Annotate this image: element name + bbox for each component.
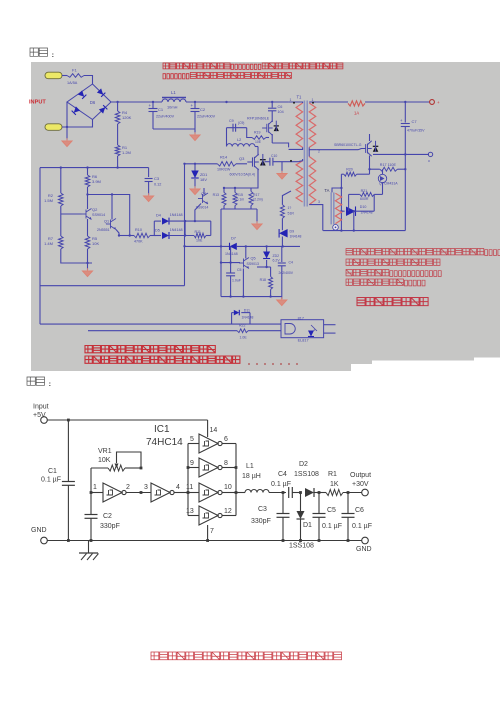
svg-text:Input: Input <box>33 404 49 411</box>
capacitor C6 104 <box>268 102 284 122</box>
svg-text:10: 10 <box>224 484 232 491</box>
svg-text:1A/5A: 1A/5A <box>67 81 78 85</box>
svg-text:470K: 470K <box>134 240 143 244</box>
wire <box>154 221 186 237</box>
fuse F1 1A <box>67 68 84 86</box>
annotation: features line 4 <box>346 279 425 286</box>
svg-text:817: 817 <box>298 317 304 321</box>
wire <box>86 193 129 235</box>
svg-text:18 µH: 18 µH <box>242 473 261 480</box>
potentiometer VR1 10K <box>91 448 142 493</box>
svg-text:14: 14 <box>210 427 218 434</box>
svg-text:C9: C9 <box>229 119 234 123</box>
capacitor C1 22uF/400V <box>149 102 175 129</box>
svg-text:C3: C3 <box>154 176 160 181</box>
svg-text:470uF/35V: 470uF/35V <box>407 129 425 133</box>
annotation: features line 1 <box>346 249 500 256</box>
resistor R19 10E <box>247 128 269 144</box>
wire <box>66 102 68 140</box>
svg-text:C2: C2 <box>103 513 112 520</box>
wire <box>257 147 259 156</box>
resistor R2 1.5M <box>44 168 63 206</box>
svg-text:10E: 10E <box>255 140 262 144</box>
resistor R4 120K <box>115 102 131 124</box>
capacitor C3 0.12uF <box>145 168 162 195</box>
svg-text:1N4148: 1N4148 <box>290 235 302 239</box>
svg-text:Q2: Q2 <box>92 207 98 212</box>
svg-text:C5: C5 <box>327 507 336 514</box>
shunt regulator TL431 <box>378 169 398 194</box>
caption label 2 (图片：) <box>27 377 51 386</box>
transformer TA (feedback) <box>324 188 341 230</box>
svg-text:R17: R17 <box>253 193 259 197</box>
diode D5 1N4148 <box>154 228 194 239</box>
svg-text:R13: R13 <box>213 193 219 197</box>
capacitor C10 <box>265 154 278 166</box>
svg-text:10K: 10K <box>92 241 99 246</box>
wire <box>324 325 336 333</box>
resistor R10 470K <box>118 228 156 244</box>
svg-text:1A: 1A <box>354 111 359 116</box>
ground <box>190 132 200 140</box>
svg-text:6: 6 <box>224 436 228 443</box>
svg-text:C1: C1 <box>48 468 57 475</box>
svg-text:R22: R22 <box>239 324 245 328</box>
wire: output bus <box>235 444 238 516</box>
svg-text:R11: R11 <box>195 230 201 234</box>
svg-text:0.1 µF: 0.1 µF <box>322 523 342 530</box>
capacitor C2 330pF <box>85 493 120 541</box>
resistor R16 51R <box>280 205 294 219</box>
svg-text:R19: R19 <box>254 131 260 135</box>
annotation: usage note line 1 (bold) <box>85 346 215 353</box>
ground <box>62 138 72 146</box>
wire <box>272 143 288 147</box>
svg-text:3: 3 <box>318 200 320 204</box>
ground <box>79 541 99 561</box>
svg-text:1N4148: 1N4148 <box>225 252 238 256</box>
annotation: features line 3 <box>346 270 441 277</box>
svg-text:RFP10N60LE: RFP10N60LE <box>247 117 270 121</box>
svg-text:10K: 10K <box>98 457 111 464</box>
svg-text:6.2V: 6.2V <box>273 259 281 263</box>
svg-text:D2: D2 <box>299 461 308 468</box>
svg-text:SBR60100CTL-G: SBR60100CTL-G <box>334 143 362 147</box>
svg-text:F1: F1 <box>72 68 77 73</box>
inverter gate U1C <box>188 434 236 453</box>
inductor L1 10mH <box>162 90 186 110</box>
svg-text:GND: GND <box>356 546 372 553</box>
wire <box>257 266 271 268</box>
svg-text:10mH: 10mH <box>167 105 178 110</box>
svg-text:1.5M: 1.5M <box>44 198 53 203</box>
svg-text:ZD2: ZD2 <box>273 254 280 258</box>
wire: feedback rail <box>40 323 281 325</box>
wire <box>282 191 291 205</box>
svg-text:D9: D9 <box>290 230 295 234</box>
svg-text:R20: R20 <box>346 168 353 172</box>
wire: left rail <box>39 168 41 325</box>
pin 14 <box>208 420 218 437</box>
capacitor C6 0.1uF <box>342 493 373 541</box>
svg-text:D10: D10 <box>360 205 367 209</box>
wire: main DC bus <box>111 101 289 103</box>
wire: aux bus <box>220 209 222 297</box>
net label INPUT (AC mains) <box>29 100 46 106</box>
ground <box>82 268 92 276</box>
svg-text:SS9014: SS9014 <box>92 213 105 217</box>
svg-text:Q1: Q1 <box>104 220 109 224</box>
svg-text:1SS108: 1SS108 <box>289 543 314 550</box>
footer note (red) <box>151 652 342 660</box>
diode D7 1N4148 <box>185 236 301 263</box>
svg-text:D6: D6 <box>90 100 96 105</box>
svg-text:C4: C4 <box>278 471 287 478</box>
pin 7 <box>208 525 214 541</box>
svg-text:C10: C10 <box>271 154 277 158</box>
wire <box>62 120 93 128</box>
svg-text:51R: 51R <box>288 212 295 216</box>
svg-text:C3: C3 <box>258 506 267 513</box>
svg-text:330pF: 330pF <box>251 518 271 525</box>
svg-text:1: 1 <box>93 484 97 491</box>
annotation: power range note line 2 <box>163 73 291 79</box>
svg-text:2: 2 <box>126 484 130 491</box>
diode D4 1N4148 <box>154 213 211 225</box>
svg-text:1.0E: 1.0E <box>240 336 248 340</box>
svg-text:D4: D4 <box>156 214 161 218</box>
svg-text:Q3: Q3 <box>239 156 245 161</box>
svg-text:Q5: Q5 <box>251 257 256 261</box>
svg-text:C6: C6 <box>355 507 364 514</box>
svg-text:1: 1 <box>290 98 292 102</box>
svg-text:7: 7 <box>210 528 214 535</box>
inductor L1 18uH <box>236 463 286 494</box>
transistor Q6 sync rectifier <box>316 134 378 174</box>
svg-text:1?: 1? <box>288 206 292 210</box>
schematic panel background <box>31 62 500 371</box>
optocoupler U1 EL817 <box>281 317 324 343</box>
wire <box>117 124 119 145</box>
wire <box>349 194 375 230</box>
svg-text:GND: GND <box>31 527 47 534</box>
svg-text:1.2M: 1.2M <box>122 150 131 155</box>
svg-text:C4: C4 <box>289 261 294 265</box>
diode D2 1SS108 <box>294 461 326 497</box>
wire <box>210 221 212 235</box>
svg-text:Output: Output <box>350 472 371 479</box>
ground <box>277 171 287 179</box>
transistor Q4 SS9014 <box>195 188 208 221</box>
inverter gate U1F <box>186 506 236 525</box>
bridge rectifier D6 <box>67 84 111 120</box>
svg-text:o: o <box>428 159 430 163</box>
svg-text:L1: L1 <box>171 90 176 95</box>
transistor Q2 SS9014 <box>61 207 105 220</box>
svg-text:0.1 µF: 0.1 µF <box>41 477 61 484</box>
resistor R20 20E <box>341 168 369 177</box>
caption label 1 (图片：) <box>30 48 54 57</box>
inverter gate U1B <box>144 483 189 502</box>
wire: mid rail <box>40 285 185 287</box>
transistor Q1 2N5551 <box>97 195 119 236</box>
resistor R1 1.2M <box>115 145 131 156</box>
svg-text:T1: T1 <box>297 95 303 100</box>
svg-text:C6: C6 <box>278 105 283 109</box>
svg-text:+: + <box>437 100 440 105</box>
wire <box>87 187 89 209</box>
svg-text:IC1: IC1 <box>154 424 170 435</box>
svg-text:104: 104 <box>278 110 284 114</box>
svg-text:5: 5 <box>190 436 194 443</box>
ground <box>144 193 154 201</box>
wire <box>61 249 92 264</box>
svg-text:D1: D1 <box>303 522 312 529</box>
svg-text:D7: D7 <box>231 236 236 241</box>
svg-text:C1: C1 <box>158 107 164 112</box>
svg-text:EL817: EL817 <box>298 339 309 343</box>
wire: primary bus <box>183 164 185 286</box>
resistor R17 2.2E <box>249 188 263 206</box>
terminal -V out <box>428 152 433 163</box>
wire: error bus <box>221 273 282 299</box>
svg-text:11: 11 <box>186 484 193 491</box>
svg-text:1N4148: 1N4148 <box>170 213 183 217</box>
svg-text:120K: 120K <box>122 115 132 120</box>
inverter gate U1A <box>90 483 151 502</box>
svg-text:C2: C2 <box>200 107 206 112</box>
svg-text:R15: R15 <box>237 193 243 197</box>
svg-text:3.9M: 3.9M <box>92 179 101 184</box>
transformer T1 <box>289 95 323 231</box>
svg-text:0.1 µF: 0.1 µF <box>271 481 291 488</box>
annotation: usage note line 2 (bold) <box>85 356 298 364</box>
svg-text:22uF/400V: 22uF/400V <box>197 115 216 119</box>
svg-text:INPUT: INPUT <box>29 100 46 106</box>
resistor R6 3.9M <box>85 168 101 187</box>
resistor R1 1K <box>326 471 362 496</box>
capacitor C9 <box>227 119 247 132</box>
zener ZD2 6.2V <box>263 246 280 267</box>
svg-text:(2.2m): (2.2m) <box>253 198 263 202</box>
svg-text:R14: R14 <box>220 155 228 160</box>
svg-text:+30V: +30V <box>352 481 369 488</box>
svg-text:0.12: 0.12 <box>154 183 161 187</box>
resistor R5 10K <box>85 219 99 249</box>
wire: gate drive bus <box>183 163 217 165</box>
svg-text:R21: R21 <box>361 189 368 193</box>
transistor Q5 SS9013 <box>221 246 259 273</box>
terminal +V out <box>430 100 440 105</box>
wire: +5V rail <box>47 419 207 422</box>
svg-text:R10: R10 <box>135 228 142 232</box>
svg-text:12: 12 <box>224 508 232 515</box>
resistor R7 1.4M <box>44 206 63 249</box>
resistor R17b 110E <box>370 163 406 171</box>
zener D10 1N4148 <box>341 205 374 216</box>
resistor R18 10E <box>260 267 273 297</box>
wire: secondary output <box>373 153 429 155</box>
svg-text:22uF/400V: 22uF/400V <box>156 115 175 119</box>
svg-text:10R/2W: 10R/2W <box>217 168 231 172</box>
svg-text:600V/10.5A(0.4): 600V/10.5A(0.4) <box>230 173 256 177</box>
svg-text:13: 13 <box>186 508 194 515</box>
wire: fb left bus <box>340 174 342 230</box>
terminal J1 (AC line) <box>45 72 62 79</box>
svg-text:600R: 600R <box>360 197 369 201</box>
svg-text:3: 3 <box>144 484 148 491</box>
svg-text:+: + <box>191 103 194 108</box>
svg-text:1N4148: 1N4148 <box>242 316 254 320</box>
svg-text:330pF: 330pF <box>100 523 120 530</box>
wire <box>223 187 251 189</box>
svg-text:VR1: VR1 <box>98 448 112 455</box>
capacitor C4 0.1uF <box>271 471 302 498</box>
svg-text:74HC14: 74HC14 <box>146 437 183 448</box>
transistor Q3 power MOSFET <box>230 154 266 188</box>
svg-text:+: + <box>149 103 152 108</box>
svg-text:C5: C5 <box>237 268 242 272</box>
annotation: features line 2 <box>346 259 440 265</box>
svg-text:1.0uF: 1.0uF <box>232 279 241 283</box>
capacitor C4 2n2/400V <box>278 246 294 296</box>
terminal J2 (AC neutral) <box>45 124 62 131</box>
fuse F2 1A (red) <box>348 101 365 116</box>
ground <box>252 221 262 229</box>
terminal input +5V <box>33 404 49 424</box>
resistor R22 1.0E <box>88 324 281 340</box>
svg-text:1N4148: 1N4148 <box>170 228 183 232</box>
wire <box>273 160 298 173</box>
resistor R21 600R <box>349 189 383 201</box>
capacitor C3 330pF <box>251 493 290 541</box>
svg-text:0.1 µF: 0.1 µF <box>352 523 372 530</box>
svg-text:D5: D5 <box>155 229 160 233</box>
capacitor C7 470uF/35V <box>400 102 425 231</box>
wire: secondary +V rail <box>316 101 429 103</box>
diode D11 1N4148 <box>232 309 254 325</box>
wire <box>62 75 67 77</box>
wire <box>84 76 93 85</box>
wire <box>221 206 257 223</box>
wire: fb bottom rail <box>323 229 405 231</box>
svg-text:1.4M: 1.4M <box>44 241 53 246</box>
capacitor C1 0.1uF <box>41 420 75 541</box>
svg-text:8: 8 <box>224 460 228 467</box>
svg-text:R1: R1 <box>328 471 337 478</box>
resistor R14 10R/2W <box>217 155 247 172</box>
resistor R12 10E <box>194 230 211 243</box>
wire: input bus <box>187 444 190 516</box>
svg-text:R18: R18 <box>260 278 266 282</box>
wire <box>153 129 195 134</box>
wire: ground rail <box>47 539 365 542</box>
svg-text:TA: TA <box>324 188 329 193</box>
wire <box>117 156 119 168</box>
svg-text:0.1m: 0.1m <box>237 198 245 202</box>
annotation: max power note (bold) <box>357 298 428 306</box>
svg-text:R17 110E: R17 110E <box>380 163 397 167</box>
resistor R15 0.1E <box>233 188 244 206</box>
transistor Q5 clamp MOSFET <box>247 117 279 144</box>
svg-text:D11: D11 <box>244 309 250 313</box>
svg-text:1: 1 <box>312 98 314 102</box>
inductor L2 <box>227 128 259 147</box>
svg-text:18V: 18V <box>200 177 207 182</box>
svg-text:4: 4 <box>176 484 180 491</box>
svg-text:2n2/400V: 2n2/400V <box>279 271 294 275</box>
svg-text:C7: C7 <box>412 119 418 124</box>
svg-text:L1: L1 <box>246 463 254 470</box>
capacitor C2 22uF/400V <box>191 102 216 129</box>
svg-text:CM431A: CM431A <box>384 182 398 186</box>
zener ZD1 18V <box>191 164 207 188</box>
diode D9 1N4148 <box>279 218 301 246</box>
ground <box>190 186 200 194</box>
diode D1 1SS108 <box>289 493 314 550</box>
svg-text:1K: 1K <box>330 481 339 488</box>
capacitor C5 0.1uF <box>313 493 343 541</box>
inverter gate U1D <box>188 458 236 477</box>
svg-text:(C9): (C9) <box>238 121 244 125</box>
svg-text:L2: L2 <box>237 138 241 142</box>
svg-text:2N5551: 2N5551 <box>97 228 110 232</box>
svg-text:SS9013: SS9013 <box>247 262 260 266</box>
terminal output GND <box>356 537 372 553</box>
svg-text:1SS108: 1SS108 <box>294 471 319 478</box>
ground <box>277 297 287 305</box>
inverter gate U1E <box>186 483 236 502</box>
wire: bias bus <box>40 166 149 168</box>
capacitor C5 1.0uF <box>226 263 241 297</box>
svg-text:9: 9 <box>190 460 194 467</box>
annotation: power range note line 1 <box>163 63 343 69</box>
terminal GND <box>31 527 47 544</box>
svg-text:4: 4 <box>314 328 316 332</box>
resistor R13 1K <box>213 188 226 206</box>
terminal output +30V <box>350 472 371 496</box>
wire <box>87 249 89 270</box>
label IC1 74HC14 <box>146 424 183 448</box>
svg-text:10E: 10E <box>196 239 203 243</box>
